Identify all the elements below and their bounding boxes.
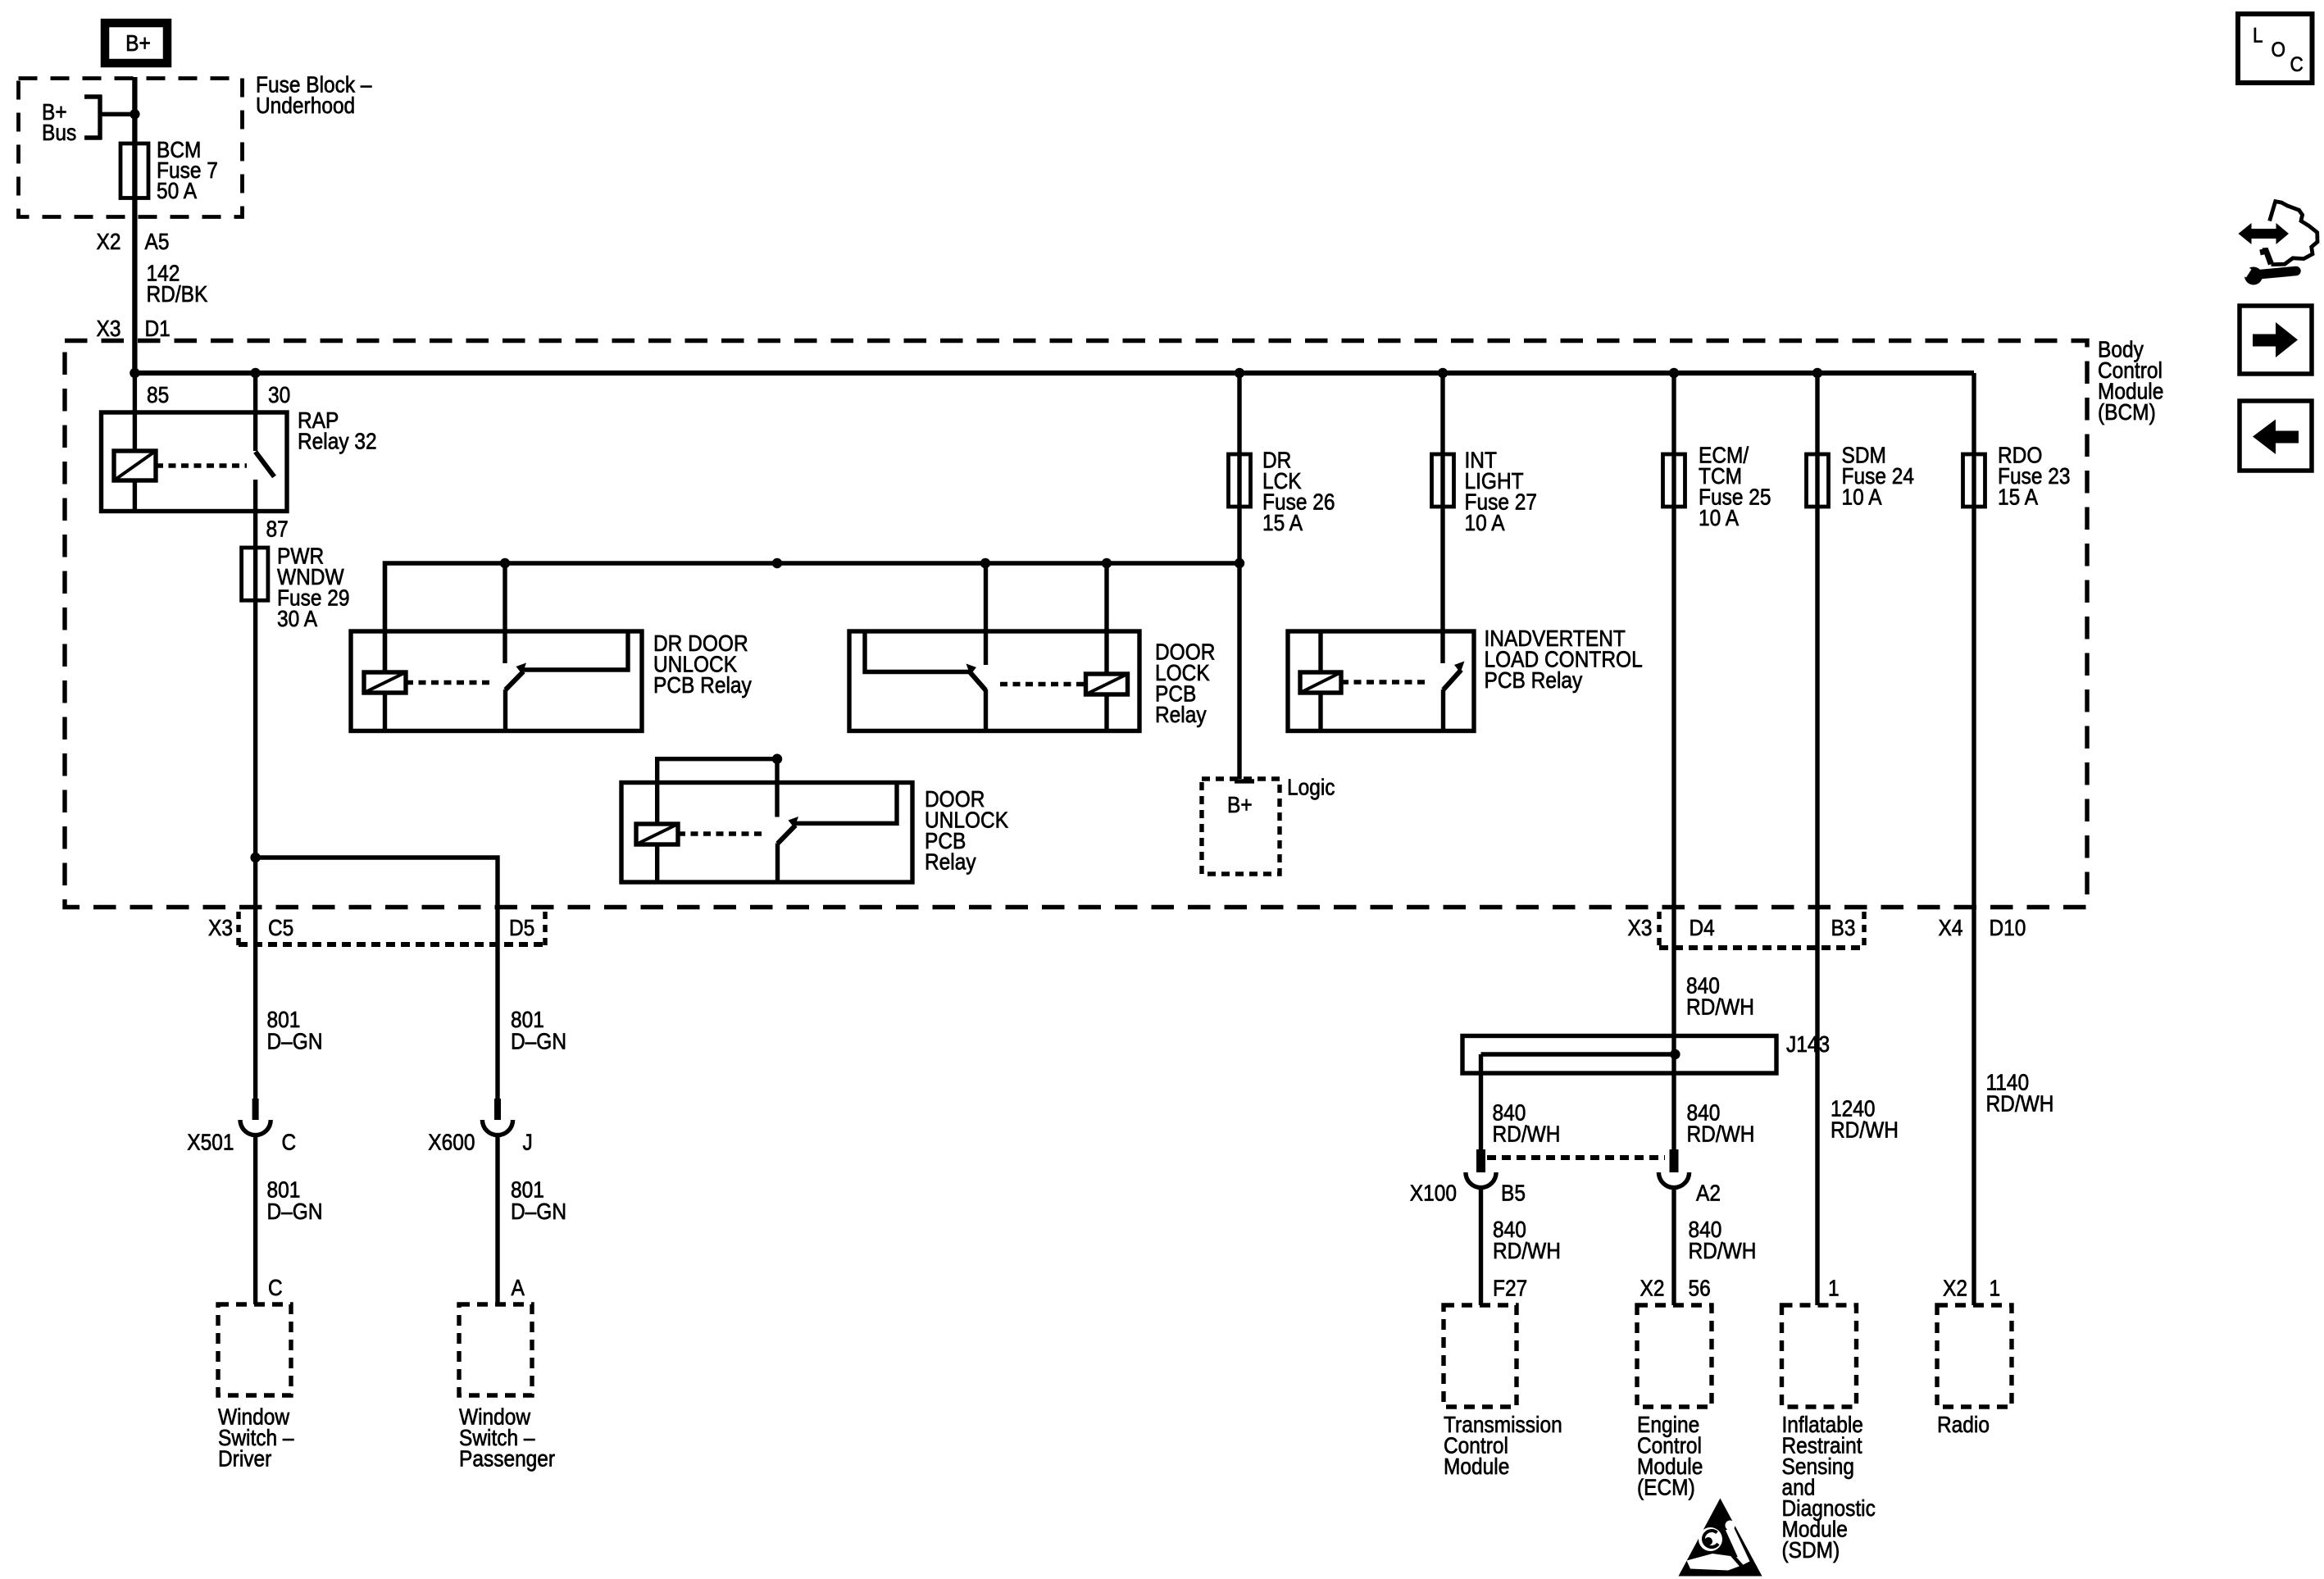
- wire label 801 D-GN passenger upper: [511, 1006, 566, 1053]
- svg-text:Module: Module: [1444, 1453, 1509, 1479]
- svg-text:Passenger: Passenger: [459, 1445, 555, 1472]
- SDM box: [1782, 1305, 1857, 1407]
- wire ECM lower: [1671, 1188, 1676, 1305]
- svg-text:X600: X600: [428, 1129, 475, 1155]
- svg-text:85: 85: [147, 381, 169, 407]
- B+ Bus bracket: [84, 95, 134, 140]
- svg-text:50 A: 50 A: [157, 177, 197, 203]
- svg-text:C5: C5: [268, 914, 293, 940]
- svg-text:(BCM): (BCM): [2098, 398, 2156, 425]
- fuse block - underhood box: [19, 79, 243, 217]
- svg-text:30: 30: [268, 381, 290, 407]
- wire label 840 RD/WH (TCM lower): [1493, 1216, 1561, 1263]
- svg-text:Logic: Logic: [1287, 774, 1335, 800]
- wire passenger window lower: [495, 1135, 499, 1304]
- RDO fuse label: [1998, 442, 2070, 510]
- SDM fuse label: [1842, 442, 1914, 510]
- wire relay feed bus: [385, 563, 1240, 671]
- svg-text:C: C: [282, 1129, 297, 1155]
- wire label 1140 RD/WH: [1986, 1069, 2054, 1117]
- DOOR LOCK relay label: [1155, 639, 1215, 727]
- svg-text:D–GN: D–GN: [267, 1198, 323, 1224]
- svg-text:X3: X3: [1628, 914, 1653, 940]
- svg-text:10 A: 10 A: [1699, 504, 1739, 530]
- INADVERTENT relay label: [1485, 625, 1643, 693]
- wire TCM branch: [1479, 1054, 1483, 1149]
- node feed-bus junctions: [500, 558, 510, 568]
- fuse DR LCK Fuse 26 15 A: [1229, 454, 1251, 507]
- wire label 840 RD/WH (ECM lower): [1689, 1216, 1757, 1263]
- svg-text:(SDM): (SDM): [1782, 1536, 1840, 1563]
- radio box: [1937, 1305, 2012, 1407]
- DOOR UNLOCK coil: [636, 824, 678, 844]
- svg-text:PCB Relay: PCB Relay: [1485, 667, 1584, 693]
- RAP relay coil feed wire (pin 85): [133, 373, 137, 451]
- B+ logic dashed box: [1202, 779, 1280, 874]
- svg-text:D–GN: D–GN: [511, 1198, 566, 1224]
- node bus fuse26 junction: [1235, 368, 1244, 378]
- svg-text:Driver: Driver: [218, 1445, 272, 1472]
- svg-text:A2: A2: [1696, 1180, 1721, 1206]
- terminal label F27: [1493, 1275, 1527, 1301]
- wire DOOR UNLOCK top link: [657, 759, 777, 824]
- B+ Bus label: [42, 98, 76, 145]
- relay DOOR UNLOCK PCB box: [621, 783, 912, 883]
- wire passenger window branch: [256, 858, 498, 1099]
- svg-text:1: 1: [1828, 1275, 1840, 1301]
- svg-text:A5: A5: [145, 228, 170, 254]
- svg-text:15 A: 15 A: [1998, 484, 2038, 510]
- svg-text:B+: B+: [1227, 791, 1253, 817]
- svg-text:RD/WH: RD/WH: [1493, 1237, 1561, 1263]
- BCM Fuse 7 label: [157, 136, 218, 203]
- inline connector X600 J: [494, 1099, 501, 1120]
- fuse block - underhood label: [256, 71, 372, 118]
- wire label 1240 RD/WH: [1831, 1095, 1899, 1143]
- svg-text:X2: X2: [1640, 1275, 1665, 1301]
- INT LIGHT fuse label: [1465, 447, 1537, 535]
- BCM label: [2098, 336, 2163, 425]
- icon component view (car panel with arrows and wrench): [2236, 202, 2317, 285]
- wire INT LIGHT fuse drop: [1440, 373, 1444, 663]
- B+ logic terminal bar: [1235, 779, 1254, 783]
- inline connector X501 C: [252, 1099, 259, 1120]
- RAP relay switch blade: [256, 452, 275, 477]
- svg-text:J143: J143: [1786, 1031, 1830, 1057]
- terminal label 1 (SDM): [1828, 1275, 1840, 1301]
- terminal letter A: [512, 1274, 525, 1300]
- svg-text:Relay 32: Relay 32: [298, 428, 377, 454]
- wire label 840 RD/WH (D4): [1686, 972, 1754, 1020]
- fuse ECM/TCM Fuse 25 10 A: [1663, 454, 1685, 507]
- fuse PWR WNDW Fuse 29 30 A: [242, 548, 268, 600]
- relay RAP Relay 32 box: [102, 412, 288, 512]
- fuse SDM Fuse 24 10 A: [1807, 454, 1829, 507]
- relay DR DOOR UNLOCK PCB box: [351, 631, 642, 731]
- terminal letter C: [268, 1274, 283, 1300]
- svg-text:Relay: Relay: [925, 849, 976, 875]
- relay DOOR LOCK PCB box: [849, 631, 1139, 731]
- svg-text:RD/WH: RD/WH: [1686, 994, 1754, 1020]
- PWR WNDW fuse label: [277, 543, 349, 631]
- svg-text:RD/WH: RD/WH: [1493, 1121, 1561, 1147]
- RAP relay terminal labels 85 30: [147, 381, 169, 407]
- svg-text:Radio: Radio: [1937, 1411, 1990, 1437]
- svg-text:A: A: [512, 1274, 525, 1300]
- node bus fuse24 junction: [1812, 368, 1822, 378]
- battery terminal B+: [105, 23, 167, 63]
- DR DOOR UNLOCK actuator dashed link: [406, 680, 490, 685]
- svg-text:B5: B5: [1501, 1180, 1526, 1206]
- svg-text:L: L: [2253, 24, 2263, 47]
- svg-text:C: C: [268, 1274, 283, 1300]
- terminal label 87: [266, 516, 289, 542]
- svg-text:D1: D1: [145, 315, 171, 341]
- svg-text:30 A: 30 A: [277, 605, 317, 631]
- body control module (BCM) box: [65, 341, 2087, 908]
- svg-text:J: J: [523, 1129, 533, 1155]
- svg-text:Underhood: Underhood: [256, 92, 355, 118]
- X100 dashed link: [1487, 1155, 1665, 1160]
- node J143 junction: [1670, 1049, 1680, 1059]
- fuse INT LIGHT Fuse 27 10 A: [1432, 454, 1454, 507]
- svg-text:RD/WH: RD/WH: [1986, 1090, 2054, 1117]
- inline connector X100 A2: [1670, 1149, 1679, 1172]
- RAP relay switch feed wire (pin 30): [253, 373, 257, 451]
- svg-text:X2: X2: [1943, 1275, 1967, 1301]
- wire label 801 D-GN passenger lower: [511, 1176, 566, 1224]
- transmission control module box: [1444, 1305, 1517, 1407]
- window switch passenger box: [459, 1304, 532, 1395]
- wire label 840 RD/WH (TCM upper): [1493, 1099, 1561, 1147]
- DR DOOR UNLOCK switch: [503, 563, 507, 663]
- connector pin label X2 A5: [97, 228, 121, 254]
- engine control module box: [1637, 1305, 1712, 1407]
- DOOR LOCK actuator dashed link: [1000, 682, 1086, 686]
- RAP relay actuator dashed link: [156, 463, 247, 467]
- svg-text:X4: X4: [1939, 914, 1963, 940]
- svg-text:X100: X100: [1410, 1180, 1457, 1206]
- svg-text:X3: X3: [97, 315, 121, 341]
- svg-text:D5: D5: [509, 914, 534, 940]
- icon LOC (component location legend): [2238, 14, 2313, 83]
- terminal label X2 1 (radio): [1943, 1275, 1967, 1301]
- INADVERTENT actuator dashed link: [1341, 680, 1430, 684]
- connector row X3 C5 D5: [236, 912, 241, 947]
- wire RDO fuse drop: [1972, 373, 1976, 1305]
- wire label 801 D-GN driver lower: [267, 1176, 323, 1224]
- SRS airbag warning symbol: [1679, 1499, 1762, 1577]
- svg-text:87: 87: [266, 516, 289, 542]
- svg-text:10 A: 10 A: [1465, 509, 1505, 535]
- svg-text:X2: X2: [97, 228, 121, 254]
- INADVERTENT coil: [1300, 672, 1341, 693]
- fuse RDO Fuse 23 15 A: [1963, 454, 1985, 507]
- splice J143 internal wire: [1481, 1052, 1676, 1056]
- svg-text:56: 56: [1689, 1275, 1711, 1301]
- svg-text:RD/BK: RD/BK: [147, 280, 208, 307]
- node window feed split: [250, 853, 260, 862]
- svg-text:D–GN: D–GN: [511, 1028, 566, 1054]
- relay INADVERTENT LOAD CONTROL PCB box: [1288, 631, 1474, 731]
- svg-text:D4: D4: [1690, 914, 1715, 940]
- DOOR LOCK coil: [1086, 674, 1128, 694]
- node DOOR UNLOCK link junction: [772, 754, 782, 764]
- node bus fuse27 junction: [1438, 368, 1448, 378]
- ECM/TCM fuse label: [1699, 442, 1771, 530]
- wire SDM fuse drop: [1815, 373, 1819, 1305]
- wire label 801 D-GN driver upper: [267, 1006, 323, 1053]
- splice J143 box: [1462, 1036, 1776, 1074]
- inline connector X100 B5: [1476, 1149, 1485, 1172]
- svg-text:Relay: Relay: [1155, 701, 1207, 727]
- DOOR UNLOCK switch: [775, 759, 779, 817]
- RAP relay coil: [114, 451, 156, 480]
- svg-text:D10: D10: [1990, 914, 2026, 940]
- svg-text:X3: X3: [208, 914, 233, 940]
- svg-text:10 A: 10 A: [1842, 484, 1882, 510]
- wire ECM/TCM fuse drop: [1671, 373, 1676, 1149]
- connector pin label X3 D1: [97, 315, 121, 341]
- icon arrow next (right): [2240, 306, 2312, 374]
- DR LCK fuse label: [1262, 447, 1335, 535]
- wire label 142 RD/BK: [147, 260, 208, 307]
- DR DOOR UNLOCK coil: [364, 672, 406, 693]
- wire TCM lower: [1479, 1188, 1483, 1305]
- wire DR LCK fuse drop: [1237, 373, 1241, 779]
- wire label 840 RD/WH (ECM upper): [1687, 1099, 1755, 1147]
- wire driver window lower: [253, 1135, 257, 1304]
- svg-text:O: O: [2272, 39, 2286, 61]
- node bus fuse25 junction: [1669, 368, 1679, 378]
- svg-text:(ECM): (ECM): [1637, 1474, 1695, 1500]
- junction B+ bus tap: [130, 109, 139, 119]
- svg-text:B+: B+: [125, 30, 151, 56]
- connector pin label X4 D10: [1939, 914, 1963, 940]
- icon arrow previous (left): [2240, 401, 2312, 471]
- node bus RAP-30 junction: [250, 368, 260, 378]
- svg-text:B3: B3: [1831, 914, 1856, 940]
- svg-text:RD/WH: RD/WH: [1687, 1121, 1755, 1147]
- svg-text:F27: F27: [1493, 1275, 1527, 1301]
- svg-text:X501: X501: [187, 1129, 234, 1155]
- DR DOOR UNLOCK relay label: [653, 630, 753, 698]
- wire B+ feed: [132, 77, 137, 373]
- wire RAP output / driver window feed: [253, 480, 257, 1099]
- svg-text:D–GN: D–GN: [267, 1028, 323, 1054]
- window switch driver box: [218, 1304, 291, 1395]
- RAP relay coil bottom leg: [133, 480, 137, 512]
- connector row X3 D4 B3: [1657, 912, 1662, 950]
- svg-text:15 A: 15 A: [1262, 509, 1303, 535]
- J143 label: [1786, 1031, 1830, 1057]
- terminal label X2 56: [1640, 1275, 1665, 1301]
- svg-text:PCB Relay: PCB Relay: [653, 671, 753, 698]
- fuse BCM Fuse 7 50 A: [121, 143, 148, 198]
- DOOR UNLOCK relay label: [925, 785, 1008, 874]
- node bus-feed junction: [130, 368, 139, 378]
- DOOR UNLOCK actuator dashed link: [678, 831, 766, 835]
- wire main B+ bus: [134, 371, 1974, 375]
- svg-text:RD/WH: RD/WH: [1689, 1237, 1757, 1263]
- svg-text:C: C: [2290, 53, 2304, 76]
- INADVERTENT switch: [1444, 670, 1462, 690]
- B+ logic labels: [1227, 791, 1253, 817]
- RAP relay label: [298, 407, 377, 453]
- svg-text:Bus: Bus: [42, 119, 76, 145]
- svg-text:1: 1: [1990, 1275, 2001, 1301]
- DOOR LOCK switch: [984, 563, 988, 665]
- svg-text:RD/WH: RD/WH: [1831, 1117, 1899, 1143]
